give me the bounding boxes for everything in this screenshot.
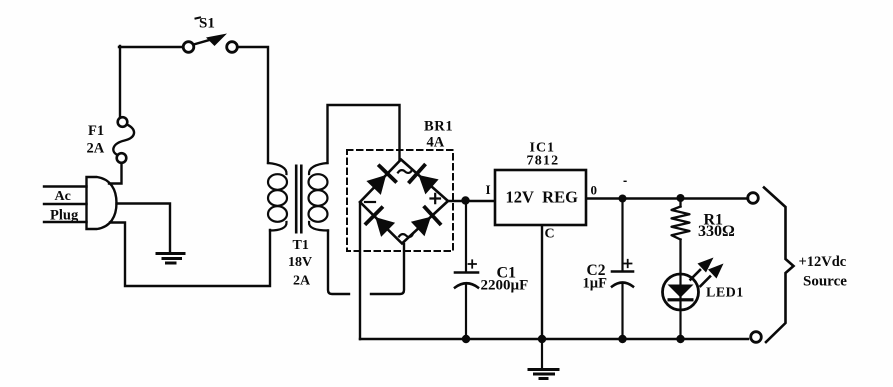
svg-text:+12Vdc: +12Vdc bbox=[799, 254, 847, 270]
svg-text:Ac: Ac bbox=[55, 189, 71, 204]
label +12Vdc Source bbox=[799, 254, 848, 290]
node dot at C1 junction bbox=[461, 196, 469, 204]
capacitor C2 bbox=[612, 199, 633, 340]
brace bracket bbox=[764, 188, 794, 343]
label R1 330ohm bbox=[698, 212, 735, 241]
diode D4 bottom-right bbox=[411, 207, 440, 236]
svg-text:1µF: 1µF bbox=[583, 276, 608, 292]
node dot rail C1 bbox=[462, 335, 470, 343]
svg-text:18V: 18V bbox=[288, 255, 312, 270]
svg-text:2200µF: 2200µF bbox=[481, 278, 529, 294]
wire secondary top to bridge bbox=[328, 105, 400, 163]
LED1 bbox=[663, 274, 699, 339]
svg-text:F1: F1 bbox=[88, 123, 104, 139]
label Ac Plug bbox=[50, 189, 79, 224]
node dot rail LED bbox=[676, 335, 684, 343]
diode D2 top-right bbox=[410, 165, 439, 194]
output terminal bottom bbox=[751, 332, 762, 343]
svg-text:0: 0 bbox=[591, 183, 598, 198]
dashed box BR1 bbox=[347, 150, 453, 251]
wire bridge left vertex down to rail bbox=[359, 203, 361, 340]
svg-text:LED1: LED1 bbox=[706, 286, 744, 301]
output terminal top bbox=[748, 193, 759, 204]
svg-text:T1: T1 bbox=[293, 238, 309, 253]
diode D3 bottom-left bbox=[366, 208, 395, 237]
transformer T1 secondary coil bbox=[309, 163, 329, 231]
svg-text:7812: 7812 bbox=[527, 154, 560, 169]
label T1 18V 2A bbox=[288, 238, 312, 289]
svg-text:BR1: BR1 bbox=[424, 119, 453, 135]
wire IC1 common down bbox=[541, 226, 543, 340]
label S1 bbox=[196, 16, 215, 32]
label F1 2A bbox=[87, 123, 105, 157]
transformer T1 core bbox=[295, 165, 303, 234]
node dot rail ground bbox=[538, 335, 546, 343]
wire left vertical to fuse bbox=[119, 46, 121, 117]
switch S1 bbox=[183, 34, 237, 53]
plug prong lines bbox=[44, 187, 87, 223]
wire secondary bottom to crossover bbox=[328, 231, 349, 295]
wire fuse to plug bbox=[109, 163, 122, 184]
wire plug bottom loop to transformer primary bottom bbox=[110, 223, 270, 287]
bridge polarity marks bbox=[365, 170, 440, 237]
wire IC1 output rail bbox=[587, 197, 749, 199]
wire plug middle to ground bbox=[117, 204, 171, 254]
svg-text:S1: S1 bbox=[199, 16, 215, 32]
wire bridge output to IC1 bbox=[448, 200, 495, 202]
label BR1 4A bbox=[424, 119, 453, 151]
svg-text:4A: 4A bbox=[427, 135, 445, 151]
wire switch to transformer primary bbox=[238, 47, 269, 163]
fuse F1 bbox=[113, 117, 134, 163]
ground near plug bbox=[157, 254, 184, 264]
diode D1 top-left bbox=[366, 166, 395, 195]
svg-text:2A: 2A bbox=[293, 274, 311, 289]
node dot C2 top bbox=[619, 195, 627, 203]
svg-text:330Ω: 330Ω bbox=[698, 223, 735, 240]
svg-text:Source: Source bbox=[803, 274, 847, 290]
node dot R1 top bbox=[677, 194, 685, 202]
wire top-left horizontal bbox=[119, 46, 183, 48]
wire crossover to bridge bottom bbox=[371, 244, 404, 294]
svg-text:Plug: Plug bbox=[50, 208, 79, 224]
transformer T1 primary coil bbox=[268, 163, 287, 231]
AC plug body bbox=[87, 177, 117, 229]
capacitor C1 bbox=[455, 201, 478, 340]
IC1 regulator box bbox=[495, 170, 586, 225]
bridge rectifier diamond bbox=[360, 160, 448, 244]
resistor R1 bbox=[672, 198, 690, 274]
node dot rail C2 bbox=[618, 335, 626, 343]
main ground symbol bbox=[529, 339, 558, 379]
label IC1 7812 bbox=[527, 141, 560, 169]
svg-text:12V REG: 12V REG bbox=[506, 188, 579, 207]
bottom rail bbox=[360, 338, 748, 340]
svg-text:I: I bbox=[486, 182, 491, 197]
label C1 2200uF bbox=[481, 265, 529, 294]
svg-text:2A: 2A bbox=[87, 141, 105, 157]
svg-text:C: C bbox=[545, 227, 555, 242]
LED1 arrows bbox=[691, 258, 724, 287]
speck artifact bbox=[624, 181, 627, 182]
label C2 1uF bbox=[583, 262, 608, 292]
